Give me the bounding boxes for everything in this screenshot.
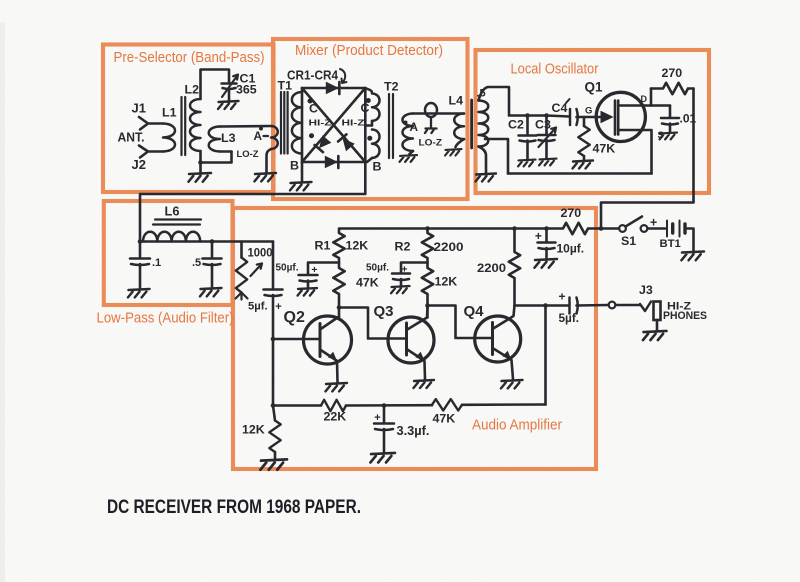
annotation box: Local Oscillator [476, 50, 710, 193]
Q2 emitter lead [336, 361, 339, 382]
wire node to bottom rail [272, 339, 275, 406]
capacitor .1 ground lead [139, 264, 142, 288]
ground under .5 cap [200, 288, 222, 296]
LO core line [470, 100, 473, 148]
Q3 emitter [407, 349, 425, 361]
jack J1 [139, 117, 163, 130]
transformer T2 core [389, 94, 393, 158]
bottom rail right [462, 403, 546, 406]
node Q2 base [271, 337, 276, 342]
ring output wire to low-pass [140, 162, 365, 242]
transformer T2 primary upper [365, 88, 379, 121]
L6 core lines [153, 220, 201, 225]
capacitor .1 [130, 259, 150, 266]
resistor 47K lead (LO) [583, 117, 586, 126]
diode CR3 (on TL-BR diagonal) [338, 134, 354, 150]
node bottom rail left [271, 403, 276, 408]
node 10uf [544, 226, 549, 231]
ground under L2 [188, 173, 211, 182]
scan edge shading left [0, 22, 5, 582]
12K ground lead [274, 452, 277, 459]
diode CR2 (on BL-TR diagonal) [315, 136, 331, 152]
annotation box: Mixer [273, 39, 468, 199]
Q1 gate arrow [601, 112, 613, 123]
scan noise filter def [0, 0, 1, 1]
L4 top wire [413, 112, 464, 115]
switch S1 wire [601, 227, 619, 230]
phone jack ground lead [656, 320, 659, 330]
bottom rail left [273, 404, 321, 407]
resistor 47K (feedback) [432, 399, 462, 410]
ground under L5 [476, 174, 497, 182]
capacitor .5 lead [211, 242, 214, 258]
capacitor C4 (series) [570, 109, 578, 125]
L4 right winding [454, 114, 464, 140]
ground under L4 left [400, 155, 417, 162]
resistor 47K (LO) [578, 126, 589, 156]
capacitor 10uf ground lead [545, 248, 548, 258]
polarity dot C right [366, 98, 371, 103]
Q3 base bar [405, 323, 408, 355]
bottom rail mid [346, 404, 432, 407]
transformer T1 core [281, 92, 288, 154]
capacitor .5 [203, 259, 222, 266]
L4 left winding ground lead [410, 151, 414, 154]
Q4 emitter arrow [502, 350, 512, 360]
resistor 270 (supply) [547, 223, 602, 234]
capacitor .01 [661, 118, 679, 125]
Q4 base bar [491, 323, 494, 355]
resistor 2200 (Q4 collector) [509, 229, 520, 306]
Q3 emitter arrow [415, 351, 425, 361]
L5 bottom lead [479, 147, 487, 173]
50uf(1) ground lead [307, 281, 310, 288]
wire drain node to .01 [651, 104, 670, 107]
inductor L2 [190, 99, 201, 151]
battery BT1 cells [667, 221, 680, 237]
Q4 collector [493, 306, 515, 330]
capacitor C2 ground lead [526, 141, 529, 159]
50uf(2) ground lead [400, 279, 403, 285]
ground under .01 [660, 133, 677, 140]
input cap to Q2 base wire [272, 295, 275, 339]
wire L3 to output A [220, 126, 271, 152]
ground under Q2 [325, 383, 347, 391]
transformer core L1/L2 [182, 97, 186, 155]
47K ground lead [583, 156, 586, 160]
ground under C3 [539, 159, 556, 166]
inductor L3 [209, 127, 220, 152]
low-pass node right [210, 239, 215, 244]
polarity dot B left [309, 133, 314, 138]
switch S1 lever [626, 217, 643, 227]
node 47K bottom [337, 305, 342, 310]
Q1 drain lead [618, 89, 651, 106]
C4 accent tick [566, 99, 570, 103]
L5 feedback tap [485, 139, 508, 174]
Q4 emitter lead [512, 360, 514, 379]
capacitor .01 lead [669, 106, 672, 117]
jack J2 [139, 146, 163, 158]
volume pot 1000 [236, 258, 247, 293]
diode CR4 (bottom) [325, 156, 338, 168]
inductor L6 [143, 232, 200, 242]
transistor Q3 circle [388, 317, 434, 363]
capacitor .01 ground lead [669, 124, 672, 132]
node battery junction [599, 226, 604, 231]
svg-text:DC RECEIVER FROM 1968 PAPER.: DC RECEIVER FROM 1968 PAPER. [107, 497, 361, 518]
ground under 47K (LO) [573, 161, 594, 169]
node 3.3uf [382, 403, 387, 408]
capacitor 3.3uf ground lead [383, 429, 386, 452]
capacitor 10uf [538, 243, 556, 250]
capacitor .5 ground lead [211, 264, 214, 287]
capacitor C3 ground lead [545, 140, 548, 158]
node R2 top [425, 226, 430, 231]
diode ring bottom wire [302, 161, 365, 164]
R2/12K node wire to 50uf [401, 263, 428, 273]
wire C1 to ground [228, 89, 231, 101]
annotation box: Low-Pass filter [104, 201, 233, 305]
volume pot 1000 lead [240, 242, 243, 258]
bypass capacitor 50uf (2) [392, 274, 410, 281]
capacitor C3 lead [545, 116, 548, 134]
T1 secondary line / ring left side [301, 88, 304, 182]
capacitor 3.3uf lead [383, 406, 386, 423]
output terminal circle [609, 302, 616, 309]
ground under ring (mixer) [290, 182, 312, 190]
inductor L1 [163, 124, 175, 152]
gate wire [577, 116, 601, 119]
resistor 12K (input) [269, 421, 280, 453]
ground under 3.3uf [370, 453, 395, 463]
capacitor C1 (variable 365) [222, 84, 237, 90]
ground under C2 [518, 160, 535, 167]
annotation box: Pre-Selector [103, 45, 274, 193]
wire L2 bottom to ground [199, 163, 202, 173]
low-pass wire [140, 240, 273, 243]
C1 tuning arrow [222, 75, 238, 98]
V+ rail [340, 227, 547, 230]
battery BT1 wire [648, 227, 666, 230]
low-pass node left [138, 239, 143, 244]
battery BT1 wire 2 [685, 229, 694, 251]
Q1 source lead [618, 130, 651, 174]
LO feedback bottom wire [508, 172, 652, 175]
switch S1 throw [641, 225, 648, 232]
LO injection plug [425, 117, 437, 133]
Q1 channel bars [615, 101, 618, 135]
Q3 emitter lead [423, 361, 426, 379]
capacitor 10uf lead [545, 229, 548, 242]
ground under jack J3 [643, 331, 667, 340]
diode ring top wire [302, 87, 365, 90]
capacitor C2 lead [526, 116, 529, 135]
ground under L4 right [445, 149, 461, 155]
polarity dot T2 lower [367, 136, 372, 141]
ground under Q4 [501, 380, 523, 388]
resistor 22K [321, 400, 346, 411]
Q2 base bar [319, 324, 322, 357]
L5 top lead [479, 87, 528, 116]
L4 left winding [403, 114, 414, 152]
R1/47K node wire to 50uf [308, 263, 339, 274]
wire L2 bottom [199, 151, 202, 163]
dot A (mixer) [404, 121, 408, 125]
Q2 emitter [320, 350, 337, 361]
ring diagonal TL-BR [302, 88, 365, 162]
T1 primary bottom lead [267, 149, 272, 172]
inductor L5 [479, 101, 489, 147]
bypass capacitor 50uf (1) [299, 275, 318, 282]
ground under 50uf (1) [298, 288, 317, 296]
LO node wire [528, 116, 570, 117]
diode CR1 (top) [326, 82, 339, 94]
diode ring right side [364, 88, 367, 162]
resistor R2 2200 [422, 229, 433, 263]
phone jack J3 tip [640, 302, 651, 312]
ring diagonal BL-TR [302, 88, 365, 162]
C3 tuning arrow [539, 128, 557, 148]
L4 right winding ground lead [456, 139, 465, 147]
pot 1000 wiper arrow [251, 264, 263, 277]
wire L2 bottom to L3 [201, 152, 232, 163]
node C2 [525, 113, 530, 118]
node 2200 top [512, 226, 517, 231]
wire 5uf to terminal [577, 304, 609, 307]
Q2 base wire [273, 338, 320, 341]
capacitor .1 lead [139, 242, 142, 258]
input capacitor 5uf [264, 290, 283, 297]
Q2 emitter arrow [328, 351, 338, 361]
wire 12K node to Q4 base [428, 306, 493, 339]
Q4 emitter [493, 348, 512, 360]
Q2 collector [320, 317, 339, 330]
resistor R1 12K [333, 229, 344, 263]
polarity dot C left [308, 99, 313, 104]
ground under BT1 [681, 251, 704, 260]
capacitor C2 [519, 136, 537, 142]
output capacitor 5uf [570, 298, 578, 314]
transformer T1 primary [271, 126, 278, 149]
B+ wire from LO to switch rail [601, 89, 694, 229]
wire L2 top to C1 [201, 70, 230, 100]
node 12K bottom [425, 303, 430, 308]
resistor 12K (Q3) [422, 263, 433, 318]
ground under C1 [218, 101, 239, 109]
node A dash [264, 135, 269, 137]
T2 centre tap [365, 121, 372, 126]
node output [543, 303, 548, 308]
CR1-CR4 pointer arc [340, 69, 347, 83]
LO injection jack circle [425, 103, 437, 117]
output wire [515, 304, 570, 307]
ground under 10uf [534, 259, 557, 268]
resistor 12K (input) lead [273, 406, 275, 421]
ground under .1 cap [128, 289, 150, 297]
ground under 12K [260, 459, 287, 469]
resistor 47K (Q2) [333, 263, 344, 317]
phone jack J3 body [654, 302, 661, 321]
ground under Q3 [414, 380, 435, 388]
ground under T1 primary [254, 173, 276, 181]
node L2 bottom [198, 160, 203, 165]
transformer T1 secondary [292, 92, 302, 154]
wire 47K node to Q3 base [339, 308, 407, 339]
node C3 [544, 113, 549, 118]
resistor 270 (LO drain) [651, 83, 694, 94]
transistor Q4 circle [475, 316, 521, 362]
input cap 5uf wire [272, 242, 275, 288]
transformer T2 primary lower [372, 130, 380, 158]
switch S1 pole [619, 225, 626, 232]
capacitor 3.3uf [374, 424, 394, 431]
feedback wire output to rail [544, 306, 547, 405]
transistor Q2 circle [304, 316, 352, 364]
node A dot [259, 127, 263, 131]
capacitor C3 (variable) [538, 135, 556, 141]
wire terminal to jack [615, 304, 640, 307]
pot 1000 bottom flare [236, 293, 248, 300]
transistor Q1 circle [596, 92, 645, 141]
annotation box: Audio Amplifier [233, 208, 596, 469]
Q3 collector [407, 306, 428, 331]
ground under 50uf (2) [391, 286, 409, 293]
